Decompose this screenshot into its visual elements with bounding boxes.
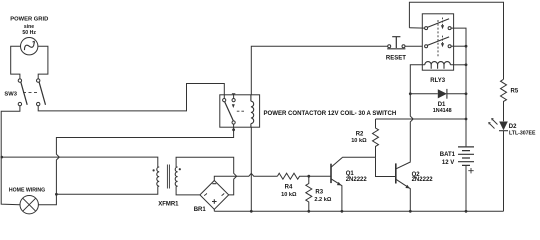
AC source V1 POWER GRID [21,38,38,55]
wire home/primary top y157 with hop over x56.4 [1,157,158,167]
relay linkage dashed [437,20,439,58]
svg-text:BAT1: BAT1 [440,152,456,158]
node dot x466 y93.8 [465,92,468,95]
label R2 10 kOhm [351,131,367,144]
diode D1 1N4148 [410,89,466,99]
svg-text:R3: R3 [315,189,323,195]
wire SW3 left pole to left rail [1,106,20,205]
label BR1 [194,207,207,213]
node dot contactor pin C [232,128,235,131]
wire secondary bottom to bridge left [176,186,200,195]
contactor pin A circle [223,99,226,102]
svg-text:XFMR1: XFMR1 [158,201,179,207]
node dot x56.4 y194.3 [55,193,58,196]
svg-text:12 V: 12 V [442,160,454,166]
wire Q2 collector up to coil node with hop crossing at y119 [410,65,422,162]
wire lamp right to x56.4 vertical and up to y137.5 [38,128,233,205]
contactor bottom terminal [232,121,235,124]
wire SW3 right pole to contactor [38,84,224,111]
svg-text:R4: R4 [285,185,293,191]
label Q1 2N2222 [346,171,368,183]
svg-text:LTL-307EE: LTL-307EE [509,131,536,137]
resistor R5 [501,79,507,121]
svg-text:SW3: SW3 [4,91,17,97]
contactor blade [225,102,234,121]
wire coil bottom to rail with no joins [250,127,252,211]
svg-text:1N4148: 1N4148 [433,108,452,114]
transistor Q2 2N2222 [396,162,411,212]
svg-text:POWER CONTACTOR 12V COIL- 30 A: POWER CONTACTOR 12V COIL- 30 A SWITCH [264,111,397,117]
wire coil right to x466 [454,64,466,66]
wire x466 down to battery [465,46,467,146]
svg-text:HOME WIRING: HOME WIRING [9,187,45,193]
label HOME WIRING [9,187,45,193]
resistor R4 [277,173,308,179]
wire R4 to Q1 base [309,175,331,177]
svg-text:sine: sine [24,24,34,30]
svg-text:50 Hz: 50 Hz [22,30,36,36]
label RLY3 [430,78,445,84]
label R4 10 kOhm [281,185,297,198]
lamp HOME WIRING [20,196,38,214]
label POWER CONTACTOR [264,111,397,117]
svg-text:RESET: RESET [386,55,406,61]
label R3 2.2 kOhm [314,189,331,203]
node dot battery rail [465,210,468,213]
relay row2 [425,36,466,48]
node dot x466 y46.2 [465,45,468,48]
contactor linkage dashes [237,110,246,112]
svg-text:BR1: BR1 [194,207,207,213]
label D1 1N4148 [433,102,452,114]
wire node down to Q2 base [376,157,396,176]
node dot R3 bottom [307,210,310,213]
svg-text:2N2222: 2N2222 [346,177,368,183]
label Q2 2N2222 [412,172,434,183]
battery BAT1 [458,146,474,211]
node dot x466 y119 [465,118,468,121]
pushbutton RESET [387,37,422,49]
label RESET [386,55,406,61]
svg-text:D2: D2 [509,124,517,130]
relay coil RLY3 [425,62,451,69]
resistor R3 [306,176,312,211]
svg-text:2.2 kΩ: 2.2 kΩ [314,197,331,203]
label D2 LTL-307EE [509,124,536,137]
node dot coil bottom rail [250,210,253,213]
node dot Q1 emitter [341,210,344,213]
label BAT1 12 V [440,152,456,166]
relay RLY3 box [422,14,453,70]
node dot x466 y64.8 [465,63,468,66]
switch SW3 [18,79,45,106]
wire primary bottom y194.3 [56,186,157,194]
node dot x410 y93.8 [409,92,412,95]
contactor pin B stub [232,94,235,99]
label XFMR1 [158,201,179,207]
bridge rectifier BR1 [200,181,229,210]
svg-text:POWER GRID: POWER GRID [10,16,48,22]
node dot left rail y157 [1,156,4,159]
label POWER GRID sine 50 Hz [10,16,48,36]
node R3 top [307,175,310,178]
relay row1 [409,18,466,47]
transformer XFMR1 [153,165,181,189]
wire secondary top to bridge right [176,157,237,195]
wire AC loop right [38,46,48,79]
label R5 [511,89,519,95]
wire AC loop left [11,46,21,79]
svg-text:2N2222: 2N2222 [412,177,434,183]
svg-text:R2: R2 [356,131,364,137]
wire bridge plus to bottom rail [213,209,215,211]
wire coil top to RESET row [251,46,387,95]
contactor coil [251,95,254,127]
wire Q1 collector to R2 node [342,156,375,158]
resistor R2 [373,119,379,157]
node dot Q2 emitter [409,210,412,213]
svg-text:R5: R5 [511,89,519,95]
LED D2 LTL-307EE [489,119,508,212]
contactor box [220,95,260,127]
svg-text:10 kΩ: 10 kΩ [351,138,367,144]
contactor blade arrow [232,104,235,108]
label SW3 [4,91,17,97]
svg-text:10 kΩ: 10 kΩ [281,192,297,198]
wire R2 top to battery node with hop over x410 [376,118,467,120]
transistor Q1 2N2222 [331,157,342,211]
wire bridge minus to R4 row with hops at x233.7 and x251.3 [214,173,277,180]
relay top rail wire [409,2,503,79]
svg-text:RLY3: RLY3 [430,78,445,84]
bottom rail [214,210,503,212]
